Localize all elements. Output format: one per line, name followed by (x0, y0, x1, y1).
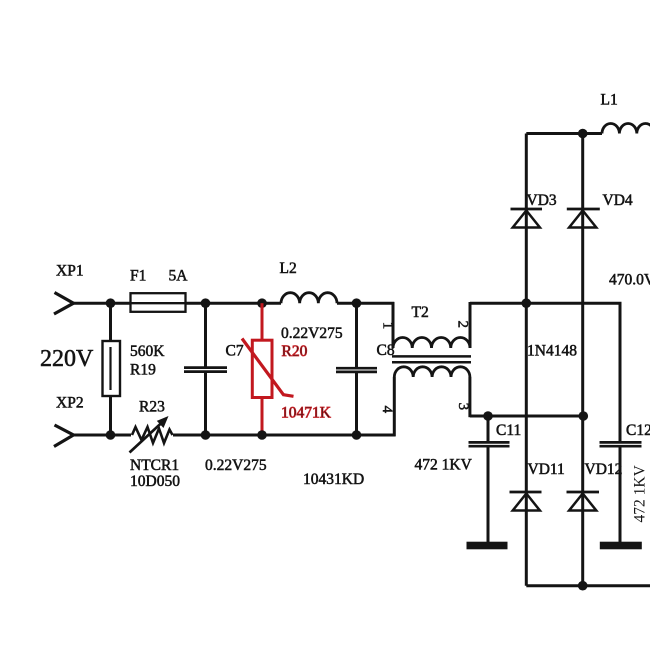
svg-text:L1: L1 (601, 92, 618, 109)
svg-text:C11: C11 (496, 422, 521, 439)
svg-text:VD11: VD11 (528, 461, 565, 478)
transformer T2 (392, 302, 471, 436)
svg-text:L2: L2 (280, 260, 297, 277)
svg-text:10431KD: 10431KD (303, 471, 364, 488)
wire fuse to L2 (186, 302, 282, 305)
svg-text:R20: R20 (282, 343, 308, 360)
svg-text:10D050: 10D050 (130, 473, 180, 490)
svg-text:2: 2 (455, 321, 471, 329)
ground C12 (600, 542, 642, 550)
node junction wire end at VD12 column (579, 411, 589, 421)
diode VD3 (511, 192, 557, 228)
node junction pin2 wire at VD column (522, 298, 532, 308)
capacitor C8 (336, 303, 395, 435)
wire top output rail (526, 132, 602, 135)
connector XP1 (54, 263, 84, 315)
svg-text:VD12: VD12 (585, 461, 623, 478)
wire VD4 column (581, 134, 584, 586)
svg-text:VD4: VD4 (603, 192, 633, 209)
svg-text:5A: 5A (169, 268, 189, 285)
svg-text:4: 4 (379, 406, 395, 414)
wire L2 to transformer pin 1 (337, 302, 394, 305)
capacitor C12 (600, 303, 650, 543)
wire bottom output rail (526, 584, 650, 587)
diode VD11 (510, 461, 565, 511)
wire XP1 to fuse (72, 302, 131, 305)
svg-text:220V: 220V (40, 346, 94, 372)
svg-text:XP2: XP2 (56, 395, 84, 412)
wire VD3 column (525, 134, 528, 586)
inductor L1 (601, 92, 650, 134)
svg-text:472 1KV: 472 1KV (415, 457, 473, 474)
wire XP2 to R23 (72, 434, 131, 437)
svg-text:0.22V275: 0.22V275 (205, 457, 267, 474)
node junction top at R19 (106, 298, 116, 308)
svg-text:R19: R19 (130, 362, 156, 379)
svg-text:1: 1 (380, 322, 396, 330)
wire pin 3 to VD12 column (470, 415, 583, 418)
node junction bottom at C8 (352, 430, 362, 440)
capacitor C11 (469, 416, 522, 543)
wire transformer pin 2 to C12 branch (470, 303, 620, 441)
node junction bottom rail at VD12 (578, 581, 588, 591)
connector XP2 (54, 395, 84, 447)
svg-text:C12: C12 (626, 422, 650, 439)
svg-text:F1: F1 (130, 268, 146, 285)
fuse F1 (130, 268, 186, 312)
svg-text:VD3: VD3 (527, 192, 557, 209)
svg-text:XP1: XP1 (56, 263, 84, 280)
svg-text:NTCR1: NTCR1 (130, 457, 179, 474)
inductor L2 (280, 260, 338, 303)
node junction top at R20 (257, 298, 267, 308)
svg-text:470.0V: 470.0V (609, 272, 650, 289)
resistor R19 (103, 303, 166, 435)
node junction bottom at R20 (257, 430, 267, 440)
capacitor C7 (184, 303, 244, 435)
node junction top at C7 (201, 298, 211, 308)
svg-text:R23: R23 (139, 399, 165, 416)
svg-text:560K: 560K (130, 343, 165, 360)
node junction at C11 (483, 411, 493, 421)
svg-text:T2: T2 (412, 304, 429, 321)
node junction top at C8 (352, 298, 362, 308)
svg-text:472 1KV: 472 1KV (632, 464, 649, 522)
wire R23 to transformer pin 4 (173, 434, 396, 437)
svg-text:C7: C7 (226, 343, 244, 360)
node junction bottom at R19 (106, 430, 116, 440)
varistor R20 (242, 303, 332, 435)
diode VD4 (567, 192, 633, 228)
svg-text:0.22V275: 0.22V275 (281, 325, 343, 342)
node junction bottom at C7 (201, 430, 211, 440)
svg-text:10471K: 10471K (281, 405, 332, 422)
svg-text:1N4148: 1N4148 (527, 343, 577, 360)
diode VD12 (567, 461, 623, 511)
thermistor R23 NTCR1 (130, 399, 181, 491)
node junction top rail at VD4 (578, 129, 588, 139)
svg-text:3: 3 (455, 403, 471, 411)
ground C11 (467, 542, 508, 550)
